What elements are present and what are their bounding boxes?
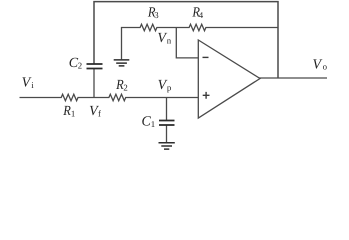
svg-text:V: V — [22, 76, 32, 91]
svg-text:3: 3 — [154, 10, 159, 20]
svg-text:4: 4 — [199, 10, 204, 20]
svg-text:2: 2 — [78, 60, 82, 70]
svg-text:o: o — [323, 62, 328, 72]
svg-text:2: 2 — [123, 82, 127, 92]
svg-text:1: 1 — [151, 119, 155, 129]
svg-text:p: p — [167, 82, 172, 92]
svg-text:1: 1 — [71, 109, 75, 119]
svg-text:n: n — [167, 35, 172, 45]
svg-text:V: V — [313, 57, 323, 72]
svg-text:f: f — [98, 109, 101, 119]
